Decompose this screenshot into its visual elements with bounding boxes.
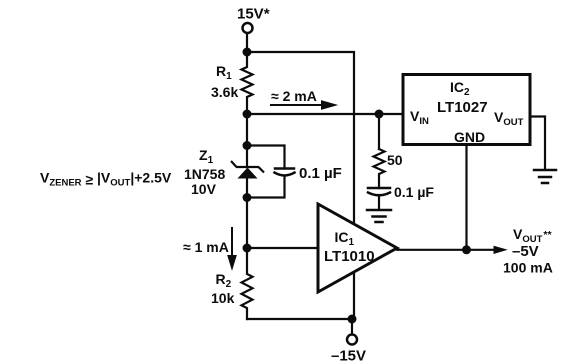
wire capacitor C1 to zener anode node: [247, 176, 285, 198]
wire zener cathode node to capacitor C1 branch: [247, 146, 285, 169]
negative rail junction dot: [348, 315, 357, 324]
wire +15V terminal to node A: [246, 33, 248, 52]
capacitor 0.1uF across Z1 bottom plate: [275, 173, 295, 176]
op-amp IC1 LT1010: [318, 204, 397, 292]
wire IC2 VOUT to ground: [531, 117, 545, 170]
capacitor 0.1uF bypass bottom plate: [368, 193, 390, 196]
svg-text:≈ 2 mA: ≈ 2 mA: [271, 88, 317, 104]
terminal +15V: [243, 23, 253, 33]
wire node B to IC2 VIN: [247, 113, 402, 115]
wire IC2 GND pin to output node: [465, 146, 467, 250]
svg-text:–15V: –15V: [331, 348, 366, 364]
zener Z1 symbol: [231, 161, 264, 173]
zener anode junction dot: [243, 193, 252, 202]
terminal -15V: [347, 335, 357, 345]
svg-text:100 mA: 100 mA: [503, 260, 553, 276]
svg-text:1N758: 1N758: [184, 166, 225, 182]
wire negative rail to -15V terminal: [247, 318, 352, 320]
svg-text:0.1 µF: 0.1 µF: [394, 184, 434, 200]
svg-text:3.6k: 3.6k: [211, 84, 238, 100]
svg-text:LT1027: LT1027: [437, 99, 488, 116]
svg-text:–5V: –5V: [512, 243, 539, 260]
wire IC2 VIN tap to resistor 50: [378, 114, 380, 149]
resistor R2: [242, 248, 253, 319]
ground symbol (bypass capacitor): [367, 210, 391, 222]
capacitor 0.1uF bypass top plate: [368, 187, 390, 190]
svg-text:10V: 10V: [191, 181, 217, 197]
wire zener Z1 anode to anode node: [246, 178, 248, 198]
svg-text:LT1010: LT1010: [324, 248, 375, 265]
resistor R1: [242, 52, 253, 114]
node E junction dot: [243, 244, 252, 253]
node A junction dot: [243, 48, 252, 57]
regulator IC2 LT1027: [403, 75, 530, 145]
output node junction dot: [462, 245, 471, 254]
capacitor 0.1uF across Z1 top plate: [275, 167, 294, 170]
IC2 VIN tap junction dot: [375, 110, 384, 119]
svg-text:≈ 1 mA: ≈ 1 mA: [183, 239, 229, 255]
wire IC1 V- pin to negative rail: [353, 266, 355, 319]
svg-text:50: 50: [387, 152, 403, 168]
svg-text:10k: 10k: [211, 290, 235, 306]
wire node A to IC1 V+ pin: [247, 52, 354, 230]
output arrow: [494, 246, 506, 253]
wire node B to zener Z1 cathode: [246, 114, 248, 167]
zener cathode junction dot: [243, 141, 252, 150]
svg-text:GND: GND: [454, 129, 485, 145]
wire IC1 output to VOUT arrow: [397, 249, 495, 251]
wire zener anode node to node E: [246, 198, 248, 249]
wire node E to IC1 input: [247, 247, 318, 249]
wire -15V junction to terminal: [351, 319, 353, 335]
node B junction dot: [243, 110, 252, 119]
svg-text:15V*: 15V*: [237, 6, 270, 23]
svg-text:0.1 µF: 0.1 µF: [299, 165, 342, 182]
wire bypass capacitor to ground: [378, 195, 380, 209]
ground symbol (IC2 VOUT): [534, 170, 556, 183]
resistor 50: [374, 149, 385, 188]
